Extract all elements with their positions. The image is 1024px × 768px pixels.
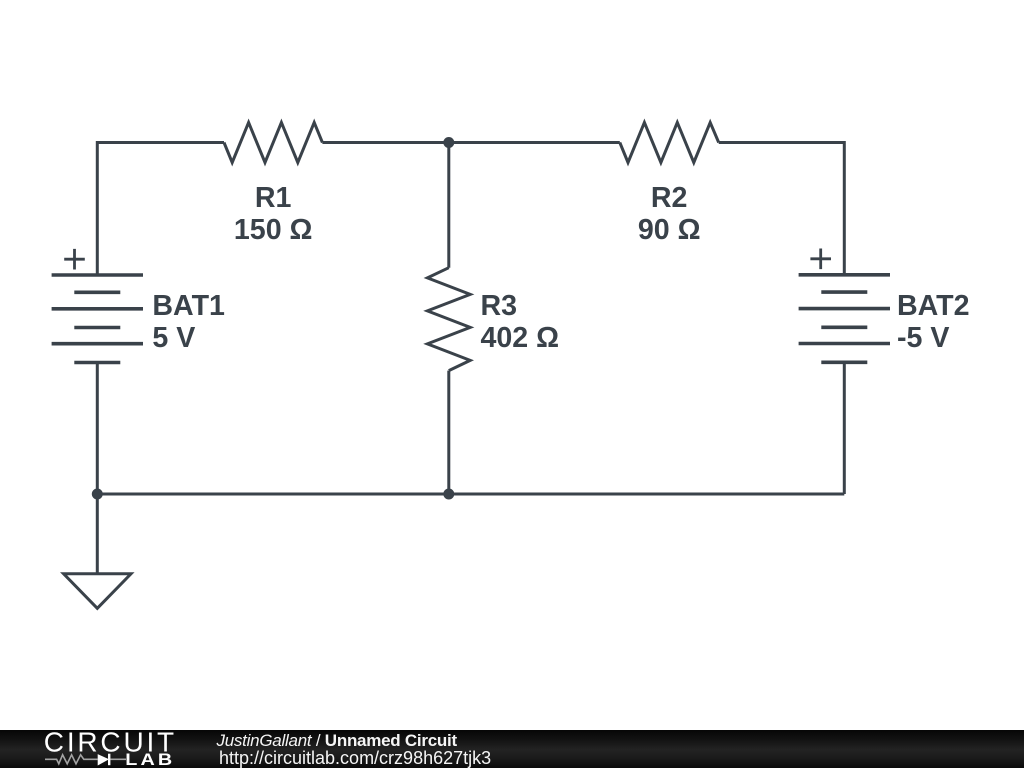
share URL (219, 748, 491, 768)
svg-text:R1: R1 (255, 182, 292, 214)
svg-text:5 V: 5 V (152, 322, 195, 354)
svg-text:402 Ω: 402 Ω (481, 322, 560, 354)
wire ground stem (96, 494, 99, 574)
svg-text:R2: R2 (651, 182, 688, 214)
resistor R1 zigzag (224, 123, 322, 163)
wire BAT1 negative lead down to bottom rail (96, 363, 99, 495)
ground symbol triangle (64, 574, 131, 609)
resistor R2 zigzag (620, 123, 719, 163)
wire top-left corner: battery BAT1 positive lead up and across to R1 (97, 143, 224, 276)
wire bottom rail (97, 493, 844, 496)
svg-text:BAT1: BAT1 (152, 290, 225, 322)
wire BAT2 negative lead down to bottom rail (843, 362, 846, 494)
resistor R3 zigzag (427, 268, 470, 371)
svg-text:150 Ω: 150 Ω (234, 214, 313, 246)
logo resistor-diode glyph (45, 755, 126, 764)
node A junction dot (443, 137, 454, 148)
wire top-right corner: R2 to battery BAT2 positive lead (719, 143, 845, 275)
svg-text:90 Ω: 90 Ω (638, 214, 701, 246)
battery BAT1 plates (52, 275, 143, 363)
svg-text:LAB: LAB (125, 751, 175, 768)
node junction dot bottom left (92, 489, 103, 500)
wire node A down to R3 top (447, 143, 450, 268)
battery BAT2 plates (799, 275, 890, 363)
svg-text:-5 V: -5 V (897, 322, 949, 354)
label R2 (638, 182, 701, 246)
node junction dot bottom middle (443, 489, 454, 500)
BAT2 plus polarity mark (810, 249, 831, 270)
footer watermark bar (0, 730, 1024, 768)
wire R1 right to node A (322, 141, 448, 144)
BAT1 plus polarity mark (64, 249, 85, 270)
wire R3 bottom to bottom rail (447, 371, 450, 494)
svg-text:BAT2: BAT2 (897, 290, 970, 322)
label BAT1 (152, 290, 225, 354)
CircuitLab logo (0, 728, 200, 768)
label BAT2 (897, 290, 970, 354)
wire node A to R2 left (449, 141, 620, 144)
label R3 (481, 290, 560, 354)
svg-text:R3: R3 (481, 290, 518, 322)
label R1 (234, 182, 313, 246)
credit line (217, 731, 457, 751)
